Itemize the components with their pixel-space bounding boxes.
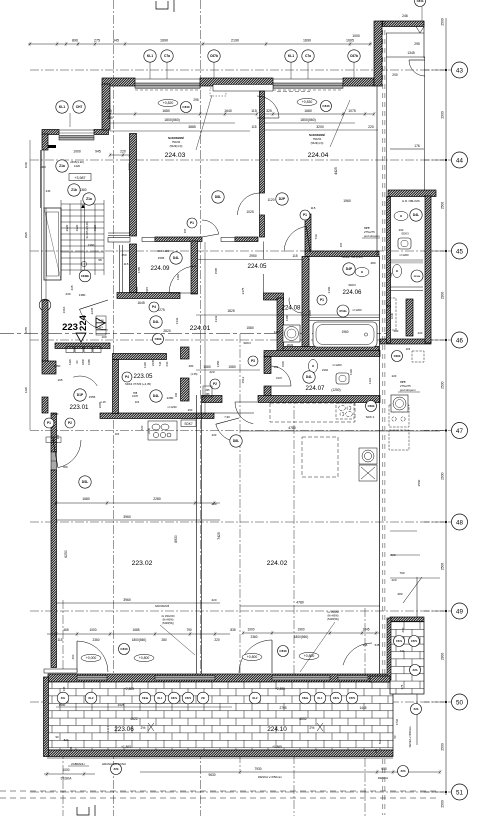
svg-text:105: 105 [57,378,62,382]
svg-text:1482: 1482 [176,273,180,280]
svg-text:2500: 2500 [440,202,444,210]
svg-text:224.04: 224.04 [308,152,329,159]
svg-text:115: 115 [251,125,256,129]
grid axis vertical 3 [239,334,241,770]
svg-text:1605: 1605 [281,361,285,367]
sink 224.07 [308,360,317,373]
label C57a [394,636,405,647]
svg-text:+2,895: +2,895 [275,687,285,691]
svg-text:1380: 1380 [285,314,289,321]
svg-text:C843: C843 [322,104,330,108]
svg-text:9630: 9630 [208,773,215,777]
hall top wall [155,237,202,242]
svg-text:2500: 2500 [440,743,444,751]
svg-text:(1.35): (1.35) [191,372,198,376]
wall between 224.03 224.04 upper [260,91,265,193]
svg-text:1075: 1075 [348,109,356,113]
svg-text:IB 98: IB 98 [98,320,104,322]
svg-text:1000: 1000 [24,161,28,168]
svg-text:490 1115: 490 1115 [157,249,169,253]
svg-text:200: 200 [392,73,398,77]
room 224.05 left edge a [263,242,265,260]
window N1 [135,83,200,88]
bottom dim row left [47,632,230,636]
svg-text:DESKA: DESKA [61,777,73,781]
level +0,830 [297,98,317,105]
right strip mid wall [380,339,431,344]
axis bubble 46 [424,332,468,348]
svg-text:1655: 1655 [24,326,28,333]
svg-text:1680: 1680 [162,109,170,113]
svg-text:(5429(50)): (5429(50)) [327,618,339,621]
right strip top wall [388,190,436,197]
svg-text:3885: 3885 [188,125,196,129]
svg-text:220: 220 [368,125,374,129]
svg-text:C67b: C67b [350,54,358,58]
svg-text:1970: 1970 [276,376,282,380]
svg-text:115: 115 [124,262,129,266]
level +3,987 [69,174,91,181]
label P2 west [65,418,75,428]
corridor line v [416,577,418,745]
svg-text:1800(560): 1800(560) [164,118,179,122]
svg-text:KL1: KL1 [318,696,323,700]
door threshold hall [221,238,235,242]
top-right wall edge [423,21,425,58]
svg-text:295: 295 [414,42,420,46]
svg-text:2900: 2900 [440,111,444,119]
grid axis vertical 5 [62,600,64,816]
west wall 223.02 b [51,470,57,668]
svg-text:D1P: D1P [77,393,84,397]
svg-text:480: 480 [189,364,194,368]
svg-text:P1: P1 [303,213,307,217]
svg-text:49: 49 [456,608,463,615]
dim line 223.02 [55,501,220,505]
label Z2b right [411,704,422,715]
label KL1 window W1 [56,101,68,113]
line above window N1 [135,78,200,80]
svg-text:115: 115 [57,638,62,642]
grid axis line 48 [30,521,446,523]
south wall band [48,674,390,682]
svg-text:NADOKENNÍ: NADOKENNÍ [155,605,170,608]
leader to wall [421,7,423,21]
label D510b [411,270,423,282]
dim line 3960 [56,519,220,521]
dashed box strip [412,351,424,362]
leader line 2 [330,100,350,147]
svg-text:1978: 1978 [132,394,138,398]
svg-text:115: 115 [339,242,343,247]
svg-text:C843: C843 [120,647,128,651]
svg-text:746: 746 [158,361,162,366]
svg-text:790: 790 [186,628,192,632]
label D4L 22305 [150,390,162,402]
svg-text:C843: C843 [182,105,190,109]
sink 224.06 [355,267,369,276]
svg-text:DESKA v=650mm: DESKA v=650mm [258,775,283,779]
balcony door swing 3 [343,643,372,665]
wall line above window W1 b [59,132,94,134]
svg-text:+3,987: +3,987 [74,176,85,180]
svg-text:2820: 2820 [163,329,171,333]
svg-text:2190: 2190 [231,39,239,43]
partition 224.08/224.06 b [309,320,379,322]
small dim [109,153,132,157]
svg-text:DESKA v=650mm: DESKA v=650mm [408,727,412,748]
dim tick line [390,577,440,579]
label KL1 window N2 [285,50,297,62]
svg-text:+0,800: +0,800 [139,656,150,660]
label D4L 224.07 [303,371,315,383]
svg-text:223.01: 223.01 [70,404,89,411]
svg-text:224.05: 224.05 [248,263,267,270]
south window 1 [155,676,215,681]
dim line 3960 low [56,602,220,604]
label C69b kitchen [366,401,377,412]
svg-text:(5429(50)): (5429(50)) [162,622,174,625]
svg-text:2795: 2795 [279,706,286,710]
svg-text:480: 480 [394,329,399,333]
svg-text:115: 115 [251,109,257,113]
balcony label r C57b [346,692,358,704]
svg-text:280: 280 [161,638,167,642]
wall 223.01 top [55,343,110,349]
svg-text:2%: 2% [141,726,146,730]
svg-text:1960: 1960 [341,330,348,334]
grid axis line 45 [30,250,446,252]
core north line b [108,235,130,237]
bathroom block left wall [277,298,284,352]
label D2P [276,193,288,205]
svg-text:223.06: 223.06 [114,726,134,733]
svg-text:C57b: C57b [185,696,192,700]
label P2 [210,379,220,389]
svg-text:1900: 1900 [297,628,304,632]
svg-text:223: 223 [62,322,78,333]
shaft box [203,386,212,397]
label C634 [39,299,51,311]
svg-text:-300: -300 [40,165,46,169]
svg-text:1690: 1690 [160,39,168,43]
svg-text:(5429(4,3)): (5429(4,3)) [170,144,183,148]
balcony door swing 1 [77,641,108,672]
svg-text:115: 115 [311,206,316,210]
svg-text:480: 480 [370,261,375,265]
svg-text:1445: 1445 [359,706,366,710]
balcony label Z2c [57,692,69,704]
wall above 224.08 [264,293,284,300]
svg-text:C57a: C57a [396,639,403,643]
svg-text:SDK7: SDK7 [184,422,193,426]
level +0,800 a [134,654,154,661]
svg-text:450: 450 [121,253,126,257]
svg-text:C69b: C69b [155,337,162,341]
svg-text:1555: 1555 [89,395,96,399]
expansion joint a [382,21,384,815]
axis bubble 47 [424,423,468,439]
door mark [416,27,424,34]
entry jamb block [42,361,56,374]
svg-text:7,90: 7,90 [224,415,230,419]
svg-text:v=1200: v=1200 [352,308,362,312]
label Z2b mid [111,764,122,775]
svg-text:720: 720 [140,425,144,430]
door P4 swing [202,220,219,234]
label P4 22305 [122,372,132,382]
balcony label r C67a [330,692,342,704]
partition 224.08/224.06 a [309,317,379,319]
grid axis line 51 [30,791,446,793]
svg-text:KL1: KL1 [59,105,65,109]
svg-text:D8L: D8L [233,439,239,443]
svg-text:325: 325 [266,109,272,113]
SDK7 box [181,420,196,427]
svg-text:1000: 1000 [62,768,69,772]
svg-text:3200: 3200 [316,125,324,129]
svg-text:C67a: C67a [171,696,178,700]
svg-text:1513: 1513 [241,376,245,383]
svg-text:435: 435 [70,285,74,290]
svg-text:224.03: 224.03 [165,152,186,159]
svg-text:P1: P1 [47,421,51,425]
electric boxes 223.02 [46,437,61,443]
bathroom block bottom wall [283,347,379,353]
section mark top [156,0,174,12]
svg-text:1000: 1000 [73,150,81,154]
grid axis line 46 [30,339,446,341]
svg-text:224.08: 224.08 [282,305,301,312]
svg-text:145: 145 [374,748,378,753]
line above window N2 [273,78,343,80]
svg-text:1045: 1045 [362,628,369,632]
svg-text:545: 545 [106,109,112,113]
ramp diagonal [403,577,422,603]
svg-text:220: 220 [418,331,423,335]
svg-text:+0,820: +0,820 [163,101,174,105]
svg-text:2360: 2360 [250,635,257,639]
sink2 right strip [392,265,401,278]
svg-text:1380: 1380 [79,293,86,297]
svg-text:220: 220 [212,433,217,437]
dim line 2950 [196,259,310,261]
svg-text:P3: P3 [251,359,255,363]
corridor line 2 [390,148,424,150]
level +0,800 b [242,653,262,660]
svg-text:1305: 1305 [135,286,139,293]
balcony label C57b [182,692,194,704]
svg-text:2%: 2% [310,726,315,730]
svg-text:1000: 1000 [247,628,254,632]
svg-text:1795: 1795 [137,266,141,273]
axis bubble 48 [424,514,468,530]
east wall top part [374,21,382,86]
west wall 223.02 a [51,413,57,452]
svg-text:224.07: 224.07 [306,385,325,392]
svg-text:P1: P1 [190,221,194,225]
svg-text:D4L: D4L [173,256,179,260]
grid axis vertical 4 [293,395,295,816]
label D4L hall [150,316,162,328]
svg-text:1133: 1133 [368,378,372,384]
svg-text:1120: 1120 [267,198,274,202]
label P3 [248,356,258,366]
svg-text:1800(560): 1800(560) [300,118,315,122]
stair direction arrow [81,204,85,208]
door D4L 224.07 leaf [271,366,291,386]
corridor right edge v [424,57,426,190]
axis bubble 43 [424,62,468,78]
label C69b strip [392,351,403,362]
svg-text:295: 295 [193,98,199,102]
svg-text:+0,800: +0,800 [247,655,258,659]
wall stair-224.03 vertical [130,134,137,237]
svg-text:48: 48 [456,519,463,526]
svg-text:C843: C843 [279,649,287,653]
east wall a [379,256,381,682]
svg-text:2810: 2810 [52,412,59,416]
svg-text:1645: 1645 [137,301,145,305]
door top right [409,60,425,76]
south window 2 [338,676,368,681]
svg-text:HRANA BALKONU: HRANA BALKONU [102,762,126,766]
appliance stack 224.02 [359,448,377,481]
svg-text:220: 220 [120,150,126,154]
dim 1000 line [44,772,95,776]
svg-text:176: 176 [414,144,420,148]
dashed soffit outline [270,403,355,477]
svg-text:1960: 1960 [343,199,351,203]
south wall 224.02 a [202,396,222,403]
svg-text:P2: P2 [213,382,217,386]
svg-text:+0,830: +0,830 [302,100,313,104]
svg-text:6250: 6250 [64,550,68,558]
svg-text:9x 165,3(4,30): 9x 165,3(4,30) [85,222,89,239]
svg-text:Z1a: Z1a [59,164,65,168]
svg-text:46: 46 [456,337,463,344]
wall 224.08/224.06 vertical [302,257,309,347]
balcony label Z2i [197,692,209,704]
balcony door swing 2 [239,640,272,673]
svg-text:1343: 1343 [214,315,218,322]
svg-text:1360: 1360 [79,188,86,192]
wall 224.07 left lower [264,386,271,396]
section triangle down [76,333,86,342]
svg-text:Z2b: Z2b [114,767,119,771]
svg-text:P4: P4 [125,375,129,379]
corridor inner corner h [386,32,424,34]
svg-text:1420: 1420 [74,164,81,168]
dashed line right of lintel [277,91,310,93]
svg-text:260: 260 [188,408,193,412]
svg-text:100: 100 [101,335,106,339]
wall between 224.03 224.04 lower [260,215,265,237]
label C7a window N2 [302,50,314,62]
svg-text:1800(560): 1800(560) [294,635,309,639]
east wall upper b [376,86,378,256]
svg-text:220: 220 [391,578,396,582]
svg-text:2500: 2500 [440,800,444,808]
west wall upper [42,134,48,150]
balcony label r KL2 [249,692,261,704]
svg-text:SDK 2: SDK 2 [366,415,375,419]
svg-text:115: 115 [183,228,187,233]
svg-text:224.09: 224.09 [151,265,170,272]
right axis dimension line [445,18,447,795]
axis bubble 45 [424,243,468,259]
SDK boxes 223.01 [66,347,101,353]
label D8L b [230,435,242,447]
svg-text:KL2: KL2 [89,696,94,700]
label D1P [74,389,86,401]
svg-text:H.R. OBLOZK: H.R. OBLOZK [402,199,420,203]
sink right strip [394,211,408,220]
washing machine 224.08 [283,325,300,342]
core west wall line b [45,208,47,300]
door D2P room 224.04 [257,96,279,118]
svg-text:Z2c: Z2c [61,696,66,700]
svg-text:2302: 2302 [322,368,329,372]
svg-text:1985: 1985 [87,359,91,365]
corridor line [386,56,425,58]
label D8L [212,191,224,203]
label C67b [208,50,220,62]
svg-text:115: 115 [406,347,411,351]
closet wall 224.05 [305,214,311,252]
leader line [196,95,212,150]
svg-text:C67b: C67b [210,54,218,58]
thin wall 224.09 left a [119,245,121,292]
svg-text:2900: 2900 [440,472,444,480]
thin wall piece [214,412,254,414]
svg-text:4780: 4780 [296,601,304,605]
svg-text:v=1230: v=1230 [167,405,177,409]
svg-text:C69b: C69b [368,404,375,408]
balcony label C67a [168,692,180,704]
svg-text:4780: 4780 [288,426,296,430]
svg-text:P1: P1 [320,298,324,302]
svg-text:C94a: C94a [142,696,149,700]
svg-text:Z2h: Z2h [413,668,418,672]
svg-text:TRUHL. OB.(DVK): TRUHL. OB.(DVK) [341,255,363,259]
label P1 west [44,418,54,428]
svg-text:280: 280 [397,592,402,596]
svg-text:v=1200: v=1200 [332,363,342,367]
svg-text:DESKA: DESKA [378,776,388,780]
axis bubble 51 [424,784,468,800]
svg-text:pod stropem: pod stropem [400,388,416,392]
core north line a [108,232,130,234]
west wall below entry [42,397,48,413]
svg-text:465: 465 [63,628,69,632]
svg-text:2900: 2900 [440,653,444,661]
wall line above window W1 [59,129,94,131]
svg-text:43: 43 [456,67,463,74]
svg-text:780: 780 [62,465,67,469]
svg-text:2245: 2245 [90,307,94,314]
partition right strip b [389,290,423,292]
wall 224.07 left upper [264,357,271,374]
neighbour west wall b [387,306,391,343]
svg-text:7425: 7425 [217,532,221,540]
west upper wall b [94,130,109,135]
svg-text:220: 220 [209,370,214,374]
svg-text:1580: 1580 [246,326,254,330]
svg-text:2900: 2900 [440,292,444,300]
svg-text:750x50: 750x50 [313,137,322,141]
svg-text:2920: 2920 [65,224,69,231]
